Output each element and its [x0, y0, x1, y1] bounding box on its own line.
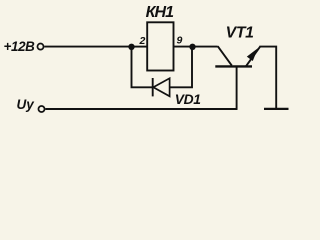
wire +12V to node A	[44, 46, 131, 48]
svg-text:Uу: Uу	[17, 97, 36, 112]
transistor base lead wire	[236, 66, 238, 109]
wire emitter to ground	[260, 47, 276, 109]
svg-text:2: 2	[139, 35, 146, 47]
svg-text:9: 9	[177, 35, 183, 47]
wire relay pin 9 to node B	[174, 46, 193, 48]
diode VD1 cathode bar	[152, 78, 154, 96]
svg-text:VT1: VT1	[226, 25, 254, 42]
node A junction dot	[128, 44, 134, 50]
relay KH1 coil rectangle	[147, 22, 173, 70]
diode loop left wire	[132, 47, 153, 88]
transistor VT1 emitter diagonal	[246, 46, 261, 66]
wire Uy to transistor base	[45, 108, 237, 110]
terminal +12V	[37, 44, 43, 50]
node B junction dot	[189, 44, 195, 50]
diode VD1 triangle	[153, 78, 169, 96]
transistor VT1 collector diagonal	[218, 46, 232, 65]
svg-text:+12В: +12В	[4, 39, 36, 54]
transistor VT1 emitter arrowhead	[247, 49, 257, 60]
ground	[264, 108, 289, 110]
wire node A to relay pin 2	[132, 46, 148, 48]
wire node B to transistor collector	[193, 46, 218, 48]
transistor VT1 base bar	[215, 65, 252, 67]
diode loop right wire up to node B	[170, 47, 192, 88]
terminal Uy	[38, 106, 44, 112]
svg-text:КН1: КН1	[146, 4, 175, 21]
svg-text:VD1: VD1	[175, 92, 201, 107]
